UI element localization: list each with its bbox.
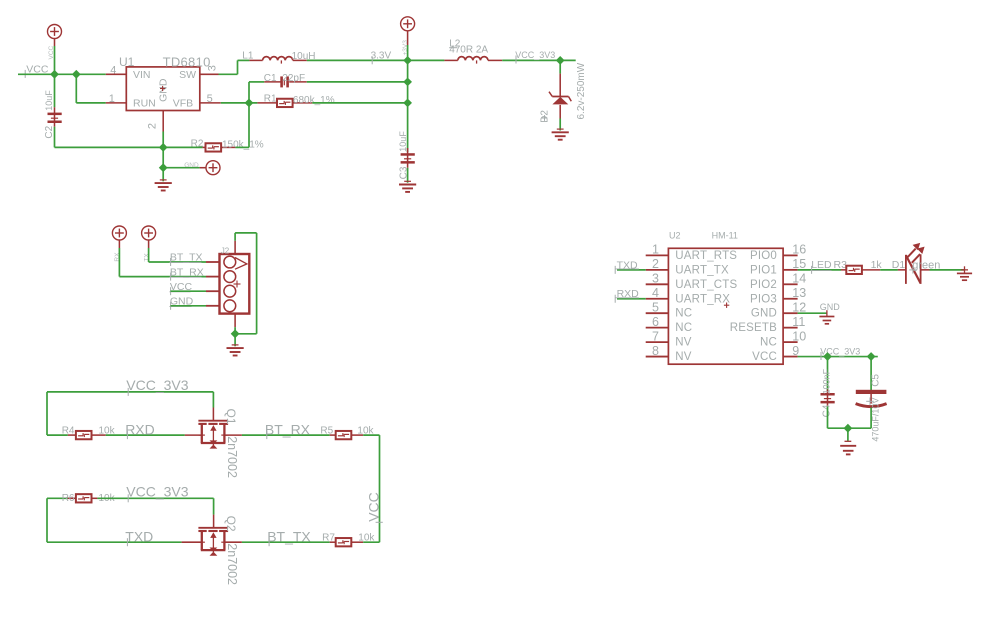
wire VCC vertical: [54, 46, 56, 74]
GND flag stub: [200, 167, 206, 169]
capacitor C5 (polarized): [856, 390, 887, 407]
D1 name: [892, 259, 906, 271]
net label VCC_3V3 (Q1): [126, 377, 188, 396]
R7 name: [322, 533, 335, 544]
wire VCC_3V3 rail (Q1): [47, 392, 213, 435]
wire to ground (J2): [234, 334, 236, 347]
Q1 name (rotated): [224, 409, 238, 425]
C1 left pin: [264, 81, 280, 83]
D1 anode pin: [898, 269, 906, 271]
ground symbol (D2): [552, 129, 569, 140]
C2 name (rotated): [44, 125, 55, 138]
svg-text:NC: NC: [675, 308, 692, 320]
J2 pin 1 circle: [224, 256, 236, 268]
wire RXD: [106, 434, 185, 436]
capacitor C3 pin: [407, 148, 409, 168]
wire pin15 to R3: [798, 269, 841, 271]
wire R3 to D1: [880, 269, 898, 271]
svg-text:2n7002: 2n7002: [225, 543, 239, 585]
Q1 value 2n7002 (rotated): [225, 436, 239, 478]
U2 pin 10 stub: [783, 341, 798, 343]
svg-text:VCC_3V3: VCC_3V3: [126, 484, 188, 500]
capacitor C3: [401, 153, 415, 163]
svg-text:GND: GND: [158, 78, 170, 102]
svg-text:PIO1: PIO1: [750, 264, 777, 276]
svg-text:UART_TX: UART_TX: [675, 264, 729, 276]
svg-text:TXD: TXD: [125, 529, 153, 545]
RX stub: [118, 240, 120, 248]
node junction R1: [403, 99, 412, 108]
resistor R4: [76, 431, 92, 439]
U2 pin name UART_RX: [675, 293, 730, 305]
node VCC_3V3 junction: [556, 56, 565, 65]
R6 right stub: [92, 497, 98, 499]
pin 2 GND stub: [162, 111, 164, 132]
wire RXD to pin4: [617, 298, 646, 300]
power flag P1 (VCC): [48, 25, 62, 39]
net label BT_TX (Q2): [267, 529, 311, 547]
wire to C4: [827, 357, 829, 391]
U1 name: [119, 55, 135, 69]
U2 pin name NV: [675, 351, 692, 363]
U2 pin 13 stub: [783, 298, 798, 300]
wire C2 to GND rail: [55, 127, 164, 148]
C3 value 10uF (rotated): [398, 131, 408, 152]
net name TX (rotated): [143, 253, 150, 262]
svg-text:LED: LED: [811, 259, 832, 271]
R2 right stub: [221, 146, 235, 148]
wire GND down: [162, 132, 164, 148]
R3 name: [834, 259, 848, 271]
svg-text:Q1: Q1: [224, 409, 238, 425]
svg-text:6: 6: [652, 315, 659, 329]
R1 left stub: [257, 102, 277, 104]
op-amp U1 body (TD6810 regulator box): [126, 67, 200, 111]
net label BT_TX (J2): [169, 252, 202, 266]
wire VCC_3V3 rail (Q2): [97, 498, 213, 514]
svg-text:NC: NC: [675, 322, 692, 334]
U2 pin number 5: [652, 300, 659, 314]
svg-text:14: 14: [792, 272, 806, 286]
pin name SW: [179, 69, 196, 81]
U2 name: [669, 231, 681, 241]
resistor R5: [336, 431, 352, 439]
net label TXD (U2): [615, 259, 639, 274]
U2 pin 9 stub: [783, 356, 798, 358]
svg-text:1: 1: [109, 93, 115, 105]
U2 pin number 3: [652, 272, 659, 286]
svg-text:5: 5: [652, 300, 659, 314]
pin 3 SW stub: [200, 73, 219, 75]
U2 pin number 7: [652, 329, 659, 343]
node junction gnd rail: [844, 424, 853, 433]
svg-text:10uF: 10uF: [44, 90, 54, 111]
C1 right pin: [289, 81, 307, 83]
Q1 gate pin: [212, 408, 214, 421]
resistor R3: [846, 266, 862, 274]
U2 pin name VCC: [752, 351, 777, 363]
svg-text:1: 1: [652, 243, 659, 257]
U2 pin name PIO2: [750, 279, 777, 291]
D2 anode pin: [559, 105, 561, 119]
svg-text:U2: U2: [669, 231, 681, 241]
wire R6 rail: [47, 498, 68, 542]
U1 origin cross: [160, 86, 165, 91]
inductor L1: [263, 57, 293, 64]
resistor R1: [277, 99, 293, 107]
L1 name: [242, 51, 254, 62]
node FB junction: [245, 99, 254, 108]
node junction: [159, 163, 168, 172]
svg-text:VCC_3V3: VCC_3V3: [515, 50, 555, 60]
wire pin12 GND: [798, 312, 827, 314]
wire BT_TX: [242, 541, 330, 543]
U2 pin number 10: [792, 329, 806, 343]
net name VCC (rotated): [48, 45, 55, 59]
svg-text:8: 8: [652, 344, 659, 358]
power flag +3V3: [401, 17, 415, 31]
ground pin tick (U2): [826, 310, 828, 316]
R5 left stub: [330, 434, 336, 436]
U2 pin name NV: [675, 337, 692, 349]
power flag RX: [112, 226, 126, 240]
R3 value 1k: [871, 259, 883, 271]
U2 pin 11 stub: [783, 327, 798, 329]
svg-text:SW: SW: [179, 69, 196, 81]
ground symbol (C3): [399, 181, 416, 192]
TX stub: [148, 240, 150, 248]
wire R5 to VCC vertical: [363, 434, 379, 436]
svg-text:GND: GND: [184, 162, 199, 169]
U2 pin name NC: [760, 337, 777, 349]
net label VCC (J2): [169, 281, 192, 295]
svg-text:C1: C1: [264, 73, 277, 84]
L1 left stub: [249, 59, 262, 61]
net label VCC_3V3 (U2): [820, 347, 860, 361]
svg-text:3: 3: [206, 65, 218, 71]
U2 pin number 16: [792, 243, 806, 257]
Q1 drain pin: [224, 434, 242, 436]
svg-text:GND: GND: [751, 308, 777, 320]
node VCC junction 2: [72, 70, 81, 79]
wire R2 to FB node: [236, 82, 250, 147]
+3V3 stub: [407, 31, 409, 45]
ground symbol (U1): [155, 180, 172, 191]
wire 3.3V to L2: [408, 59, 445, 61]
svg-text:Q2: Q2: [224, 516, 238, 532]
pin name VIN: [133, 69, 151, 81]
Q2 value 2n7002 (rotated): [225, 543, 239, 585]
svg-text:NV: NV: [675, 337, 692, 349]
svg-text:NV: NV: [675, 351, 692, 363]
svg-text:BT_RX: BT_RX: [170, 266, 204, 278]
supply symbol GND circle: [206, 161, 220, 175]
wire R7 to VCC vertical: [363, 541, 379, 543]
wire to C2: [54, 74, 56, 107]
wire VCC vertical (right): [379, 435, 381, 542]
U2 pin name UART_RTS: [675, 250, 737, 262]
U2 pin number 14: [792, 272, 806, 286]
L1 right stub: [293, 59, 307, 61]
svg-text:GND: GND: [820, 302, 841, 312]
net name 3V3 (rotated): [402, 40, 409, 56]
U2 pin 2 stub: [646, 269, 669, 271]
svg-text:13: 13: [792, 286, 806, 300]
wire to ground: [162, 168, 164, 182]
pin name RUN: [133, 98, 156, 110]
U2 pin number 12: [792, 300, 806, 314]
pin 1 RUN stub: [106, 102, 127, 104]
Q2 source pin: [182, 541, 202, 543]
svg-text:4: 4: [110, 64, 116, 76]
wire D2 to ground: [559, 119, 561, 131]
svg-text:R2: R2: [191, 139, 204, 150]
Q2 gate pin: [213, 515, 215, 528]
R7 left stub: [330, 541, 336, 543]
svg-text:VIN: VIN: [133, 69, 151, 81]
capacitor C1: [280, 76, 289, 87]
R3 left stub: [841, 269, 846, 271]
net label LED: [810, 259, 832, 274]
svg-text:150k_1%: 150k_1%: [222, 139, 264, 150]
U2 pin number 2: [652, 257, 659, 271]
svg-text:680k_1%: 680k_1%: [293, 95, 335, 106]
node VCC junction 1: [50, 70, 59, 79]
D2 cathode pin: [559, 74, 561, 97]
U2 pin number 4: [652, 286, 659, 300]
R5 value 10k: [357, 426, 374, 437]
svg-text:PIO0: PIO0: [750, 250, 777, 262]
J2 pin 4 stub: [206, 305, 220, 307]
U2 pin 15 stub: [783, 269, 798, 271]
R4 value 10k: [99, 426, 116, 437]
C5 value 470uF/10V (rotated): [870, 398, 880, 442]
wire to GND flag: [163, 147, 199, 167]
svg-text:7: 7: [652, 329, 659, 343]
C4 name (rotated): [821, 404, 832, 417]
net label 3.3V: [371, 51, 392, 65]
J2 pin 1 stub: [206, 261, 220, 263]
R6 value 10k: [99, 493, 116, 504]
wire VCC horizontal: [18, 73, 106, 75]
pin name VFB: [173, 98, 193, 110]
node GND junction: [159, 143, 168, 152]
svg-text:PIO3: PIO3: [750, 293, 777, 305]
node junction C5: [867, 352, 876, 361]
U2 pin 3 stub: [646, 283, 669, 285]
net label RXD (U2): [615, 288, 639, 303]
R6 name: [62, 493, 75, 504]
inductor L2: [458, 57, 488, 64]
net label VCC_3V3 (Q2): [126, 484, 188, 503]
node junction C1: [403, 78, 412, 87]
U2 pin 12 stub: [783, 312, 798, 314]
U2 pin name UART_CTS: [675, 279, 737, 291]
pin 5 VFB stub: [200, 102, 221, 104]
wire pin9 VCC: [798, 356, 878, 358]
svg-text:D1: D1: [892, 259, 906, 271]
svg-text:BT_TX: BT_TX: [267, 529, 311, 545]
J2 top pin stub: [234, 241, 236, 254]
net label BT_RX (Q1): [265, 422, 311, 440]
resistor R2: [206, 143, 222, 151]
svg-text:VCC: VCC: [752, 351, 777, 363]
ground pin cross (LED): [961, 266, 968, 273]
U2 pin name NC: [675, 322, 692, 334]
net label RXD: [125, 422, 155, 440]
resistor R7: [336, 538, 352, 546]
wire L1 to 3.3V node: [307, 59, 408, 61]
zener diode D2: [549, 92, 571, 105]
U2 pin name NC: [675, 308, 692, 320]
C1 value 22pF: [282, 73, 305, 84]
svg-text:TD6810: TD6810: [163, 54, 211, 69]
svg-text:UART_RX: UART_RX: [675, 293, 730, 305]
svg-text:NC: NC: [760, 337, 777, 349]
svg-text:R7: R7: [322, 533, 335, 544]
svg-text:15: 15: [792, 257, 806, 271]
svg-text:TXD: TXD: [617, 259, 638, 271]
wire D1 to ground: [930, 269, 965, 271]
node J2 gnd junction: [231, 329, 240, 338]
wire to D2: [559, 60, 561, 73]
svg-text:J2: J2: [221, 246, 230, 255]
wire J2 gnd: [234, 327, 236, 334]
R1 name: [264, 94, 277, 105]
svg-text:6.2v-250mW: 6.2v-250mW: [576, 62, 587, 119]
net label VCC: [25, 64, 49, 78]
wire to R2: [163, 146, 202, 148]
net label GND (J2): [169, 296, 193, 310]
pin 4 VIN stub: [106, 73, 127, 75]
wire J2 loop: [235, 233, 257, 334]
R7 right stub: [351, 541, 363, 543]
wire L2 to VCC_3V3: [502, 59, 576, 61]
U2 pin number 13: [792, 286, 806, 300]
R2 name: [191, 139, 204, 150]
U2 pin name GND: [751, 308, 777, 320]
U2 pin name UART_TX: [675, 264, 729, 276]
U2 pin 5 stub: [646, 312, 669, 314]
svg-text:16: 16: [792, 243, 806, 257]
U2 pin 1 stub: [646, 254, 669, 256]
C2 value 10uF (rotated): [44, 90, 54, 111]
wire C3 to ground: [407, 168, 409, 183]
transistor Q2: [198, 528, 228, 556]
U2 pin name PIO3: [750, 293, 777, 305]
wire 3.3V vertical: [407, 60, 409, 152]
L2 value 470R 2A: [449, 45, 488, 56]
J2 pin 4 circle: [224, 300, 236, 312]
U2 pin name PIO0: [750, 250, 777, 262]
wire TX down: [149, 248, 206, 262]
J2 pin 3 stub: [206, 290, 220, 292]
U2 pin 8 stub: [646, 356, 669, 358]
net label TXD: [125, 529, 153, 547]
svg-text:RESETB: RESETB: [730, 322, 777, 334]
ground symbol (LED): [957, 273, 972, 280]
pin number 3 (rotated): [206, 65, 218, 71]
ground symbol (J2): [227, 345, 244, 356]
Q2 name (rotated): [224, 516, 238, 532]
J2 name: [221, 246, 230, 255]
supply pin stub: [54, 39, 56, 47]
wire GND row: [171, 305, 207, 307]
R2 value 150k_1%: [222, 139, 264, 150]
svg-text:4: 4: [652, 286, 659, 300]
U2 pin number 15: [792, 257, 806, 271]
C5 plus mark: [866, 398, 874, 406]
svg-text:RXD: RXD: [617, 288, 640, 300]
svg-text:HM-11: HM-11: [712, 231, 738, 241]
pin number 2 (rotated): [147, 123, 159, 129]
wire to C5: [870, 357, 872, 391]
svg-text:R4: R4: [62, 426, 75, 437]
R4 left stub: [68, 434, 76, 436]
svg-text:12: 12: [792, 300, 806, 314]
U2 pin number 9: [792, 344, 799, 358]
U2 pin name RESETB: [730, 322, 777, 334]
U2 pin number 8: [652, 344, 659, 358]
transistor Q1: [198, 421, 228, 449]
U2 pin 4 stub: [646, 298, 669, 300]
net label GND (U2): [820, 302, 841, 312]
svg-text:RXD: RXD: [125, 422, 155, 438]
U2 pin 14 stub: [783, 283, 798, 285]
power flag TX: [142, 226, 156, 240]
pin number 5: [207, 93, 213, 105]
svg-text:C5: C5: [870, 374, 881, 387]
C1 name: [264, 73, 277, 84]
U2 origin cross: [724, 303, 729, 308]
wire TXD to pin2: [617, 269, 646, 271]
wire C1 row left: [249, 81, 264, 83]
LED D1: [906, 243, 925, 284]
Q1 source pin: [185, 434, 202, 436]
svg-text:C2: C2: [44, 125, 55, 138]
svg-text:22pF: 22pF: [282, 73, 305, 84]
wire VFB to R1: [221, 102, 258, 104]
R3 right stub: [862, 269, 880, 271]
R4 right stub: [92, 434, 106, 436]
J2 origin cross: [234, 281, 241, 288]
ground symbol (C4C5): [840, 441, 856, 454]
svg-text:11: 11: [792, 315, 805, 329]
svg-text:UART_CTS: UART_CTS: [675, 279, 737, 291]
svg-text:470R 2A: 470R 2A: [449, 45, 488, 56]
D2 origin cross: [542, 115, 548, 121]
L2 name: [449, 38, 461, 49]
U2 pin number 6: [652, 315, 659, 329]
net label VCC (rotated): [366, 492, 383, 522]
svg-text:U1: U1: [119, 55, 135, 69]
wire SW to L1: [219, 60, 250, 74]
C3 name (rotated): [398, 166, 409, 179]
wire RXD row left: [47, 434, 68, 436]
svg-text:PIO2: PIO2: [750, 279, 777, 291]
C5 name (rotated): [870, 374, 881, 387]
wire to RUN: [76, 74, 106, 103]
svg-text:9: 9: [792, 344, 799, 358]
svg-text:RUN: RUN: [133, 98, 156, 110]
resistor R6: [76, 494, 92, 502]
svg-text:UART_RTS: UART_RTS: [675, 250, 737, 262]
svg-text:R5: R5: [320, 426, 333, 437]
net name RX (rotated): [114, 252, 121, 262]
svg-text:D2: D2: [540, 110, 551, 123]
U1 value TD6810: [163, 54, 211, 69]
svg-text:BT_RX: BT_RX: [265, 422, 311, 438]
